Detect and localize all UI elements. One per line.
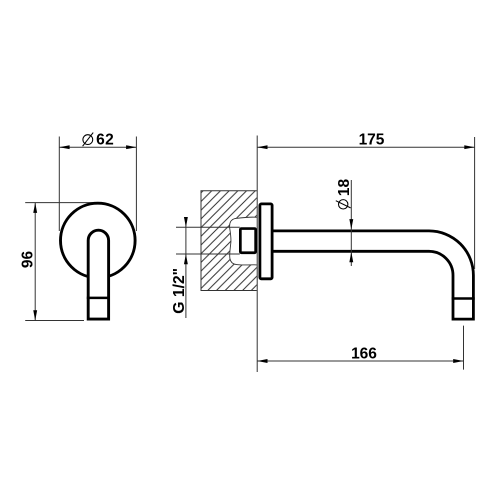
svg-text:166: 166 <box>351 345 377 362</box>
svg-text:175: 175 <box>359 132 385 149</box>
svg-text:G 1/2": G 1/2" <box>171 268 188 314</box>
svg-text:96: 96 <box>19 251 36 269</box>
svg-text:62: 62 <box>96 132 114 149</box>
svg-text:18: 18 <box>336 179 353 197</box>
